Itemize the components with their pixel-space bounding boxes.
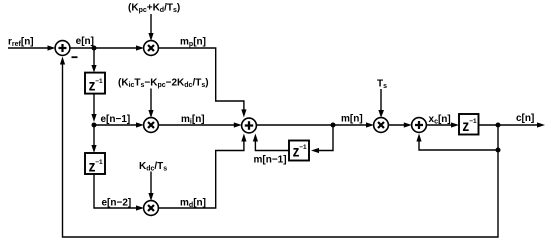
wire A1 to M4: [256, 124, 367, 126]
wire S2 to B4: [426, 124, 452, 126]
svg-text:m[n]: m[n]: [341, 114, 363, 125]
multiplier M2: [144, 118, 159, 133]
node after B4: [496, 123, 501, 128]
svg-text:e[n−2]: e[n−2]: [102, 198, 132, 209]
node e[n-1]: [92, 123, 97, 128]
delay block B4 z^-1: [459, 114, 479, 135]
wire input r_ref: [8, 47, 48, 49]
wire coefficient 1 into M1: [150, 14, 152, 34]
svg-text:rref[n]: rref[n]: [8, 37, 34, 49]
wire e[n-1] to M2: [94, 124, 137, 126]
wire B2 down and right to M3 (e[n-2]): [94, 174, 137, 208]
multiplier M1: [144, 41, 159, 56]
wire feedback bottom loop to S1: [63, 63, 499, 237]
wire feedback to S2: [419, 141, 498, 150]
summing junction S1: [55, 41, 70, 56]
wire coefficient 2 into M2: [150, 89, 152, 112]
wire M2 to adder A1: [158, 124, 235, 126]
svg-text:md[n]: md[n]: [180, 198, 206, 210]
multiplier M3: [144, 201, 159, 216]
svg-text:e[n]: e[n]: [76, 36, 94, 47]
svg-text:Ts: Ts: [377, 79, 387, 91]
svg-text:(Kpc+Kd/Ts): (Kpc+Kd/Ts): [128, 3, 180, 15]
svg-text:Kdc/Ts: Kdc/Ts: [139, 161, 167, 173]
svg-text:−1: −1: [95, 159, 103, 166]
wire S1 to M1: [70, 47, 137, 49]
wire Ts into M4: [380, 89, 382, 111]
wire B3 to adder A1 (m[n-1] path): [255, 141, 289, 151]
summing junction S2: [412, 118, 427, 133]
wire e[n] node down to B1: [93, 48, 95, 66]
multiplier M4: [374, 118, 389, 133]
wire node down to feedback node: [497, 125, 499, 150]
adder A1: [242, 118, 257, 133]
wire m[n] node down to B3: [318, 125, 333, 151]
svg-text:c[n]: c[n]: [516, 113, 534, 124]
wire e[n-1] node down to B2: [93, 125, 95, 146]
node e[n]: [92, 46, 97, 51]
svg-text:−1: −1: [299, 144, 307, 151]
wire M3 to adder A1 (md path): [158, 141, 244, 208]
node m[n]: [331, 123, 336, 128]
svg-text:(KicTs−Kpc−2Kdc/Ts): (KicTs−Kpc−2Kdc/Ts): [118, 78, 209, 90]
wire B1 down to e[n-1] node: [93, 94, 95, 115]
delay block B2 z^-1: [85, 153, 105, 174]
wire coefficient 3 into M3: [150, 172, 152, 195]
wire M1 to adder A1 (mp path): [158, 48, 244, 110]
delay block B3 z^-1: [289, 141, 309, 161]
node feedback junction: [496, 148, 501, 153]
svg-text:xc[n]: xc[n]: [429, 114, 451, 126]
svg-text:−1: −1: [95, 78, 103, 85]
svg-text:m[n−1]: m[n−1]: [254, 155, 287, 166]
svg-text:mi[n]: mi[n]: [181, 114, 205, 126]
svg-text:mp[n]: mp[n]: [180, 37, 206, 49]
minus sign at S1 feedback input: [72, 56, 78, 58]
delay block B1 z^-1: [85, 73, 105, 94]
svg-text:e[n−1]: e[n−1]: [101, 114, 131, 125]
wire B4 to output c[n]: [479, 124, 539, 126]
svg-text:−1: −1: [469, 118, 477, 125]
svg-text:z: z: [462, 118, 469, 135]
wire M4 to S2: [388, 124, 405, 126]
